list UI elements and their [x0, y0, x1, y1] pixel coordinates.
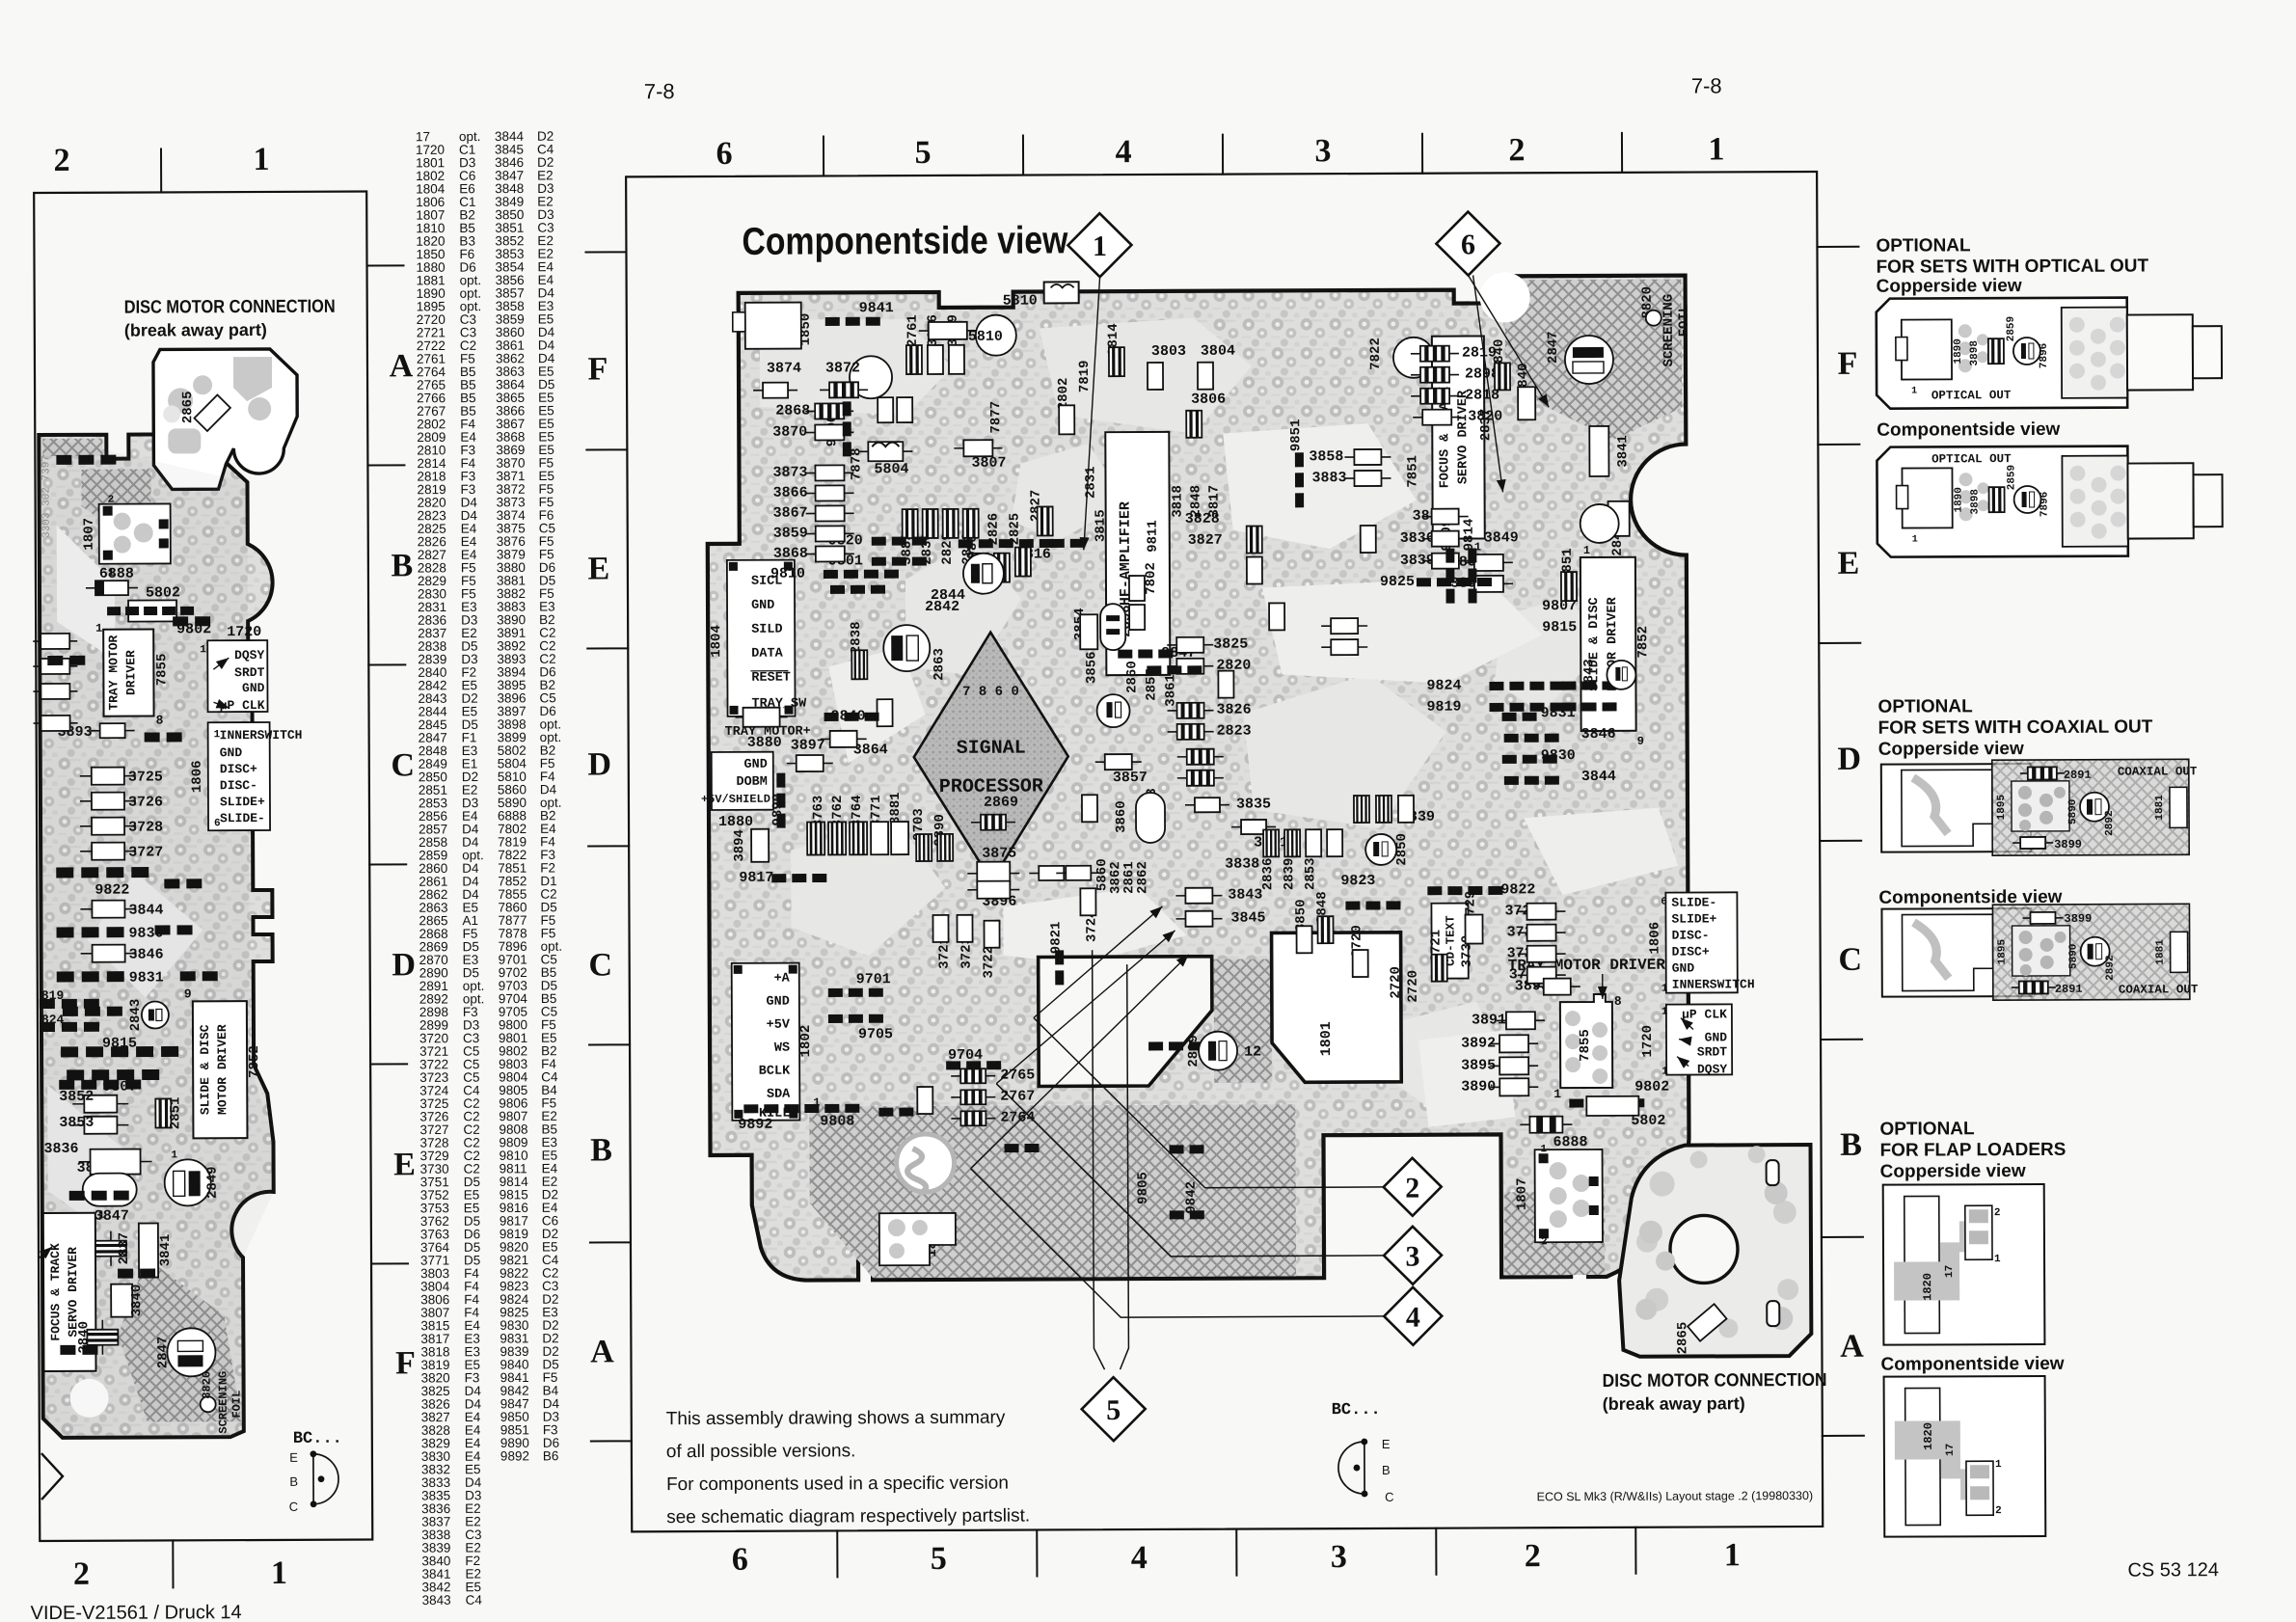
connector 1802 (+A..KILL)	[732, 963, 800, 1121]
svg-text:2891: 2891	[2055, 983, 2083, 996]
optical out componentside board	[1877, 446, 2127, 557]
component body 80	[932, 915, 948, 942]
svg-text:2899: 2899	[1186, 1035, 1202, 1068]
left drawing frame	[34, 192, 372, 1541]
svg-text:SLIDE+: SLIDE+	[220, 795, 265, 809]
resistor 3893 (left strip)	[91, 723, 135, 738]
svg-text:SLIDE-: SLIDE-	[1671, 895, 1716, 909]
svg-text:3725: 3725	[128, 769, 163, 785]
component body 102	[1247, 556, 1262, 583]
solder pad row 14	[1489, 682, 1564, 690]
svg-text:WS: WS	[774, 1041, 790, 1056]
component body 54	[1353, 950, 1368, 977]
solder pad row 15	[1490, 703, 1565, 712]
component body 40	[1095, 754, 1142, 770]
component body 29	[1422, 509, 1469, 525]
component body 78	[951, 1111, 995, 1125]
component body 53	[1317, 916, 1333, 943]
round pad lower middle	[896, 1134, 954, 1192]
svg-text:3858: 3858	[1309, 448, 1343, 465]
connector CD-TEXT	[1431, 904, 1468, 979]
transistor 2847 (central)	[1565, 336, 1613, 384]
left frame row ticks	[367, 264, 404, 266]
component body 13	[858, 442, 912, 461]
connector 1850	[745, 303, 801, 349]
solder pad row 27	[828, 1014, 883, 1023]
svg-text:3856: 3856	[1084, 651, 1099, 684]
svg-text:2: 2	[108, 495, 115, 506]
connector 1720 (left strip)	[207, 640, 267, 712]
hole near 7878	[850, 356, 892, 398]
svg-text:GND: GND	[743, 758, 767, 772]
svg-text:3: 3	[1405, 1241, 1419, 1273]
svg-text:3803: 3803	[1151, 343, 1186, 360]
svg-text:2: 2	[1994, 1207, 2001, 1219]
svg-text:3899: 3899	[2054, 838, 2082, 852]
central frame row ticks	[585, 251, 626, 253]
component body 91	[943, 509, 959, 538]
hole near 7877	[976, 315, 1016, 356]
svg-text:SLIDE+: SLIDE+	[1671, 911, 1716, 926]
svg-text:FOR FLAP LOADERS: FOR FLAP LOADERS	[1879, 1140, 2066, 1161]
svg-text:FOIL: FOIL	[1677, 305, 1692, 338]
svg-text:6: 6	[732, 1542, 748, 1578]
svg-text:9705: 9705	[858, 1026, 893, 1042]
svg-text:5802: 5802	[146, 584, 180, 601]
solder pad row 9	[1147, 665, 1202, 674]
solder pad row 25	[776, 773, 785, 828]
svg-text:1806: 1806	[190, 760, 205, 793]
left strip pad row 5	[56, 455, 116, 465]
svg-text:9831: 9831	[129, 969, 164, 986]
svg-text:3894: 3894	[732, 829, 747, 862]
svg-text:ECO SL Mk3 (R/W&IIs) Layout st: ECO SL Mk3 (R/W&IIs) Layout stage .2 (19…	[1537, 1489, 1814, 1503]
component body 69	[807, 822, 824, 854]
svg-text:E: E	[587, 551, 609, 586]
left strip pad row 2	[63, 1007, 122, 1016]
svg-text:2838: 2838	[849, 621, 864, 654]
svg-text:SERVO DRIVER: SERVO DRIVER	[1456, 390, 1471, 484]
svg-text:FOR SETS WITH OPTICAL OUT: FOR SETS WITH OPTICAL OUT	[1877, 256, 2149, 277]
svg-text:B: B	[289, 1474, 298, 1489]
component body 66	[1520, 1117, 1572, 1133]
svg-text:1: 1	[1583, 544, 1590, 557]
component body 44	[1175, 888, 1222, 904]
svg-text:1: 1	[1995, 1459, 2002, 1471]
component body 7	[806, 505, 854, 521]
svg-text:9822: 9822	[95, 882, 129, 899]
resistor 3840 (left strip)	[111, 1284, 132, 1317]
driver IC FOCUS & TRACK SERVO DRIVER (left strip)	[43, 1213, 96, 1371]
svg-text:8: 8	[1614, 994, 1622, 1009]
svg-text:12: 12	[1244, 1043, 1261, 1060]
svg-text:2847: 2847	[1546, 331, 1561, 364]
mounting hole top right	[1480, 272, 1530, 322]
component body 15	[919, 322, 977, 339]
svg-text:3: 3	[1331, 1539, 1347, 1575]
svg-text:1895: 1895	[1997, 939, 2009, 965]
capacitor 2850	[1365, 834, 1396, 865]
left strip pad row 4	[145, 732, 182, 742]
svg-text:3815: 3815	[1094, 509, 1109, 542]
svg-text:E: E	[1837, 546, 1859, 581]
svg-text:2: 2	[1541, 1236, 1548, 1248]
component body 18	[1186, 411, 1202, 438]
svg-text:9821: 9821	[1048, 922, 1064, 955]
component body 113	[1398, 796, 1414, 823]
transistor 2849 (left strip)	[165, 1159, 211, 1205]
svg-text:9815: 9815	[102, 1036, 137, 1052]
callout diamond 4	[1384, 1287, 1442, 1345]
callout diamond 1	[1067, 213, 1131, 277]
filter 5802 (central)	[1586, 1096, 1638, 1116]
svg-text:FOR SETS WITH COAXIAL OUT: FOR SETS WITH COAXIAL OUT	[1878, 716, 2153, 738]
svg-text:DISC+: DISC+	[1672, 944, 1710, 959]
svg-text:1: 1	[98, 1210, 105, 1222]
svg-text:OPTIONAL: OPTIONAL	[1877, 696, 1973, 716]
connector 3880 pad	[736, 708, 788, 727]
test point 8820 circle	[1646, 311, 1661, 326]
svg-text:3883: 3883	[1311, 470, 1346, 486]
svg-text:6888: 6888	[99, 566, 134, 582]
svg-text:8: 8	[156, 713, 164, 727]
component body 93	[973, 554, 988, 582]
svg-text:2761: 2761	[905, 314, 921, 347]
svg-text:2831: 2831	[1083, 466, 1098, 499]
svg-text:Copperside view: Copperside view	[1878, 739, 2024, 760]
component body 107	[1177, 749, 1224, 765]
svg-text:For components used in a speci: For components used in a specific versio…	[666, 1473, 1009, 1496]
svg-text:SRDT: SRDT	[1697, 1044, 1727, 1059]
oval capacitor 3860	[1136, 793, 1165, 843]
component body 2	[820, 382, 868, 397]
svg-text:C: C	[588, 947, 612, 983]
svg-text:9819: 9819	[1426, 699, 1461, 716]
leader lines from diamond 6	[1469, 275, 1550, 407]
solder pad row 19	[1504, 776, 1559, 785]
svg-text:1: 1	[253, 142, 269, 177]
resistor 3844	[80, 901, 136, 918]
component body 84	[877, 699, 892, 726]
svg-text:µP CLK: µP CLK	[1682, 1007, 1727, 1021]
resistors 3852 3853	[72, 1095, 128, 1113]
svg-text:1807: 1807	[82, 518, 97, 551]
svg-text:3873: 3873	[772, 465, 807, 481]
svg-text:6: 6	[1461, 229, 1475, 260]
svg-text:B: B	[1840, 1127, 1862, 1163]
svg-text:3864: 3864	[853, 742, 888, 758]
svg-text:(break away part): (break away part)	[1603, 1393, 1745, 1414]
svg-text:3870: 3870	[772, 424, 807, 441]
component body 56	[1465, 914, 1482, 943]
svg-text:9892: 9892	[500, 1448, 529, 1463]
connector 1804 (SICL..TRAY_SW)	[727, 560, 796, 716]
svg-text:DOBM: DOBM	[736, 775, 767, 790]
svg-text:9815: 9815	[1542, 619, 1577, 635]
connector 1806 (left strip)	[208, 722, 270, 830]
svg-text:OPTICAL OUT: OPTICAL OUT	[1931, 389, 2012, 402]
component body 63	[1490, 1035, 1538, 1052]
svg-text:1720: 1720	[1640, 1025, 1656, 1058]
svg-text:3843: 3843	[1228, 886, 1262, 903]
svg-text:2: 2	[1525, 1538, 1541, 1574]
svg-text:2865: 2865	[180, 391, 196, 423]
main PCB outline (componentside view)	[707, 276, 1690, 1281]
component body 65	[1490, 1078, 1538, 1095]
component body 39	[1080, 614, 1097, 649]
solder pad row 23	[824, 713, 879, 721]
component body 49	[1284, 829, 1300, 856]
capacitor 2899 with label 12	[1199, 1032, 1237, 1070]
solder pad row 7	[830, 585, 885, 594]
component body 24	[1413, 410, 1461, 425]
svg-text:3: 3	[1314, 133, 1331, 169]
svg-text:9701: 9701	[856, 971, 891, 987]
svg-text:1: 1	[1912, 535, 1918, 546]
solder pad row 26	[828, 988, 883, 997]
svg-text:1801: 1801	[1318, 1021, 1335, 1056]
svg-text:3818: 3818	[1171, 485, 1186, 518]
svg-text:DISC-: DISC-	[220, 778, 257, 793]
solder pad row 38	[1562, 702, 1617, 711]
component body 110	[1082, 795, 1097, 822]
svg-text:1802: 1802	[798, 1025, 814, 1058]
flap loader copperside board	[1883, 1184, 2045, 1345]
svg-text:9823: 9823	[1340, 873, 1375, 889]
IC 7860 signal processor (rhombus)	[913, 632, 1068, 881]
svg-text:8820: 8820	[201, 1371, 214, 1399]
svg-text:7896: 7896	[2039, 492, 2051, 517]
svg-text:Componentside view: Componentside view	[742, 219, 1068, 262]
component body 14	[954, 440, 1002, 456]
leader line from diamond 4	[971, 1167, 1385, 1318]
component body 22	[1411, 367, 1459, 383]
svg-text:4: 4	[1115, 134, 1131, 170]
svg-text:1: 1	[271, 1555, 287, 1591]
component body 83	[1080, 888, 1095, 915]
svg-text:1895: 1895	[1996, 795, 2008, 821]
svg-text:3843: 3843	[422, 1593, 451, 1608]
svg-text:3844: 3844	[1581, 769, 1616, 785]
svg-text:B: B	[391, 548, 413, 583]
capacitor 2860	[1096, 694, 1129, 727]
svg-text:1: 1	[1541, 1144, 1548, 1155]
svg-text:3827: 3827	[1188, 532, 1223, 549]
component body 8	[806, 526, 854, 541]
svg-text:DATA: DATA	[751, 647, 783, 662]
svg-text:CS 53 124: CS 53 124	[2127, 1559, 2219, 1581]
component body 100	[1129, 605, 1145, 630]
svg-text:3859: 3859	[773, 526, 808, 542]
component body 20	[1059, 405, 1074, 434]
pad row 9807	[67, 1069, 159, 1080]
svg-text:A: A	[390, 348, 414, 384]
connector 1720 (right, uP CLK..DQSY)	[1666, 1004, 1732, 1074]
svg-text:3861: 3861	[1163, 674, 1178, 707]
svg-text:3860: 3860	[1114, 800, 1129, 833]
resistor 6888 (left strip)	[86, 581, 138, 595]
component body 101	[1247, 526, 1262, 553]
svg-text:2892: 2892	[2104, 810, 2116, 835]
svg-text:7819: 7819	[1077, 360, 1093, 392]
svg-text:(break away part): (break away part)	[124, 320, 267, 340]
callout diamond 3	[1384, 1227, 1442, 1284]
svg-text:3872: 3872	[825, 360, 860, 376]
svg-text:INNERSWITCH: INNERSWITCH	[220, 728, 303, 743]
white cutout left (solder side opening)	[1039, 957, 1213, 1087]
component body 38	[1168, 724, 1214, 740]
svg-text:1881: 1881	[2155, 939, 2167, 965]
solder pad row 6	[959, 539, 1054, 548]
svg-text:9892: 9892	[738, 1117, 772, 1133]
disc motor break-away piece (central view)	[1619, 1145, 1812, 1357]
svg-text:C: C	[391, 747, 415, 783]
component body 57	[1517, 904, 1565, 920]
svg-text:5: 5	[914, 135, 931, 171]
component body 70	[828, 822, 846, 854]
svg-text:B6: B6	[543, 1448, 559, 1463]
solder pad row 17	[1504, 734, 1559, 743]
component body 5	[805, 465, 853, 480]
svg-text:9851: 9851	[1288, 419, 1304, 451]
IC 7852 slide & disc motor driver	[1580, 557, 1636, 731]
fold mark chevron	[41, 1453, 63, 1500]
svg-text:BCLK: BCLK	[759, 1065, 791, 1079]
svg-text:1: 1	[1994, 1254, 2001, 1265]
svg-text:3845: 3845	[1230, 909, 1265, 926]
svg-text:E: E	[289, 1450, 298, 1465]
svg-text:2: 2	[1508, 132, 1525, 168]
svg-text:3857: 3857	[1113, 770, 1148, 786]
svg-text:7-8: 7-8	[644, 79, 675, 103]
svg-text:RESET: RESET	[751, 671, 791, 686]
svg-text:Copperside view: Copperside view	[1877, 276, 2022, 297]
svg-text:GND: GND	[220, 745, 243, 760]
svg-text:7822: 7822	[1368, 338, 1384, 370]
pad row 9815	[61, 1046, 178, 1058]
svg-text:3727: 3727	[128, 844, 163, 860]
component body 1	[753, 383, 797, 398]
IC 7851 focus & track servo driver	[1432, 336, 1485, 538]
svg-text:1: 1	[95, 622, 102, 635]
svg-text:1: 1	[1911, 387, 1917, 397]
part 1810 (bottom)	[879, 1213, 956, 1265]
svg-text:9808: 9808	[820, 1113, 854, 1129]
svg-text:2765: 2765	[1000, 1068, 1035, 1084]
solder pad row 1	[825, 317, 880, 326]
component body 31	[1422, 554, 1469, 569]
svg-text:9825: 9825	[1380, 574, 1415, 590]
svg-text:9810: 9810	[770, 566, 805, 582]
svg-text:1881: 1881	[2154, 795, 2166, 821]
svg-text:E: E	[393, 1147, 416, 1182]
left strip pad row 3	[47, 656, 85, 665]
solder pad row 34	[1005, 1144, 1040, 1152]
component body 27	[1344, 449, 1391, 465]
capacitor 2851	[155, 1098, 171, 1127]
svg-text:µP CLK: µP CLK	[220, 698, 265, 713]
svg-text:5810: 5810	[1003, 292, 1038, 309]
left strip pad row 7	[69, 1191, 129, 1201]
svg-text:2842: 2842	[925, 599, 959, 615]
svg-text:2853: 2853	[1303, 857, 1318, 890]
component body 45	[1175, 911, 1222, 927]
svg-text:1: 1	[1708, 131, 1724, 167]
svg-text:2851: 2851	[168, 1097, 183, 1130]
component body 59	[1518, 946, 1566, 962]
connector box 1801	[1272, 933, 1402, 1083]
svg-text:1: 1	[1661, 1007, 1668, 1018]
component body 90	[923, 509, 938, 538]
component body 25	[1495, 363, 1510, 390]
component body 52	[1297, 926, 1312, 953]
solder pad row 5	[872, 556, 927, 565]
svg-text:VIDE-V21561 / Druck 14: VIDE-V21561 / Druck 14	[31, 1602, 242, 1622]
svg-text:+A: +A	[774, 972, 791, 987]
central frame column ticks bottom	[836, 1530, 838, 1577]
crosshatch region (left strip bottom)	[118, 1257, 242, 1422]
svg-text:C4: C4	[466, 1593, 483, 1608]
svg-text:7852: 7852	[1635, 626, 1651, 659]
svg-text:3806: 3806	[1191, 392, 1226, 408]
svg-text:9824: 9824	[1426, 678, 1461, 694]
svg-text:DQSY: DQSY	[234, 648, 264, 662]
svg-text:1807: 1807	[1515, 1177, 1530, 1210]
svg-text:4: 4	[1131, 1540, 1148, 1576]
svg-text:9822: 9822	[1500, 881, 1535, 898]
svg-text:9842: 9842	[1184, 1181, 1200, 1214]
crosshatch between cutouts	[1214, 959, 1273, 1082]
svg-text:1: 1	[200, 644, 206, 656]
component body 109	[1218, 671, 1233, 698]
svg-text:GND: GND	[751, 599, 774, 613]
capacitor 2844	[963, 554, 1004, 594]
pads 3819 3824 left edge	[40, 999, 99, 1009]
svg-text:3898: 3898	[1969, 340, 1981, 366]
svg-text:3840: 3840	[129, 1284, 145, 1317]
component body 96	[1038, 506, 1053, 535]
left PCB strip outline	[39, 434, 276, 1438]
component body 82	[984, 921, 999, 948]
svg-text:3868: 3868	[773, 546, 808, 562]
svg-text:SLIDE-: SLIDE-	[220, 811, 265, 825]
component body 99	[1129, 576, 1145, 601]
component body 112	[1376, 796, 1391, 823]
disc motor break-away piece (left view)	[153, 349, 298, 490]
component body 67	[787, 755, 833, 771]
component body 111	[1354, 796, 1369, 823]
test point 8820	[201, 1396, 216, 1412]
svg-text:Componentside view: Componentside view	[1877, 419, 2060, 441]
component body 28	[1344, 471, 1391, 486]
svg-text:OPTIONAL: OPTIONAL	[1879, 1119, 1975, 1139]
svg-text:6888: 6888	[1553, 1134, 1587, 1150]
component body 115	[1056, 866, 1100, 880]
component body 77	[951, 1090, 995, 1104]
svg-text:4: 4	[1406, 1302, 1420, 1334]
component body 98	[897, 397, 912, 422]
solder pad row 31	[1055, 950, 1064, 985]
IC 7802 HF-amplifier	[1105, 432, 1170, 675]
svg-text:2868: 2868	[775, 403, 810, 419]
svg-text:1806: 1806	[1648, 922, 1663, 955]
svg-text:Copperside view: Copperside view	[1880, 1161, 2026, 1182]
svg-text:2869: 2869	[984, 795, 1018, 811]
connector 2865 (break-away piece)	[194, 394, 230, 431]
svg-text:9805: 9805	[1136, 1172, 1151, 1204]
svg-text:2859: 2859	[2006, 316, 2017, 341]
component body 58	[1518, 925, 1566, 941]
